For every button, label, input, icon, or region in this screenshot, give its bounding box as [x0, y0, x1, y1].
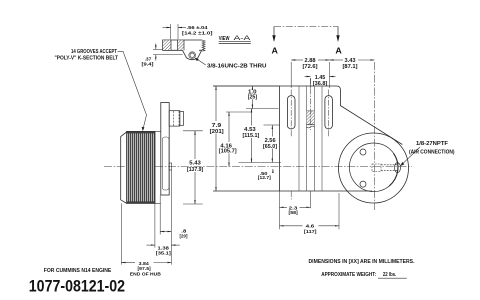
svg-text:[105.7]: [105.7] — [219, 149, 237, 155]
svg-text:3.43: 3.43 — [345, 58, 356, 64]
svg-text:[9.4]: [9.4] — [142, 62, 155, 67]
svg-text:.56 ±.04: .56 ±.04 — [187, 25, 208, 30]
dimension 4.53 — [251, 109, 253, 126]
extension lines left of bracket — [213, 85, 280, 87]
bolt hole top — [360, 149, 366, 155]
dimension 2.56 — [271, 125, 273, 137]
hub centerline — [310, 78, 312, 130]
view A-A serrated right edge — [202, 40, 205, 51]
svg-text:5.43: 5.43 — [189, 160, 201, 166]
bolt hole bottom — [360, 181, 366, 187]
view A-A section bar outline — [163, 40, 202, 50]
svg-text:1077-08121-02: 1077-08121-02 — [29, 277, 125, 295]
svg-text:DIMENSIONS IN [XX] ARE IN MILL: DIMENSIONS IN [XX] ARE IN MILLIMETERS. — [309, 259, 415, 265]
svg-text:[72.6]: [72.6] — [303, 64, 318, 70]
svg-text:[20]: [20] — [180, 234, 188, 239]
svg-text:APPROXIMATE WEIGHT:: APPROXIMATE WEIGHT: — [321, 272, 376, 278]
svg-text:"POLY-V" K-SECTION BELT: "POLY-V" K-SECTION BELT — [55, 56, 119, 62]
view A-A lug below bar — [183, 50, 202, 59]
view A-A hatched rib 2 — [178, 40, 184, 50]
dimension 3.43 — [330, 59, 344, 61]
leader for 14 grooves callout — [118, 51, 147, 129]
view A-A hatched rib 1 — [163, 40, 171, 50]
svg-text:2.88: 2.88 — [305, 58, 316, 64]
dimension 1.0 — [251, 86, 253, 89]
svg-text:[14.2 ±1.0]: [14.2 ±1.0] — [182, 30, 213, 35]
svg-text:[87.1]: [87.1] — [343, 64, 358, 70]
svg-text:FOR CUMMINS N14 ENGINE: FOR CUMMINS N14 ENGINE — [44, 268, 112, 274]
svg-text:A: A — [335, 45, 341, 55]
svg-text:22 lbs.: 22 lbs. — [383, 272, 397, 278]
dimension 5.43 — [183, 130, 203, 132]
svg-text:[36.8]: [36.8] — [313, 81, 328, 87]
dimension 2.88 — [290, 62, 292, 88]
dimension 2.3 — [279, 191, 281, 229]
svg-text:14 GROOVES ACCEPT: 14 GROOVES ACCEPT — [71, 49, 118, 55]
top ear with bolt hole — [169, 111, 180, 126]
dimension 4.16 — [228, 112, 230, 142]
svg-text:1/8-27NPTF: 1/8-27NPTF — [416, 141, 449, 147]
dimension 7.9 — [215, 86, 217, 121]
svg-text:END OF HUB: END OF HUB — [130, 271, 162, 276]
svg-text:[25]: [25] — [248, 95, 258, 101]
svg-text:[137.9]: [137.9] — [187, 167, 203, 173]
svg-text:A: A — [272, 45, 278, 55]
svg-text:4.6: 4.6 — [306, 224, 315, 229]
outer circle of air chamber — [339, 133, 409, 203]
dimension 1.45 — [310, 78, 312, 88]
dimension 3.84 — [120, 203, 122, 264]
dimension 1.38 — [147, 244, 155, 246]
notes bottom right — [309, 259, 415, 278]
dimension .37 — [153, 48, 163, 50]
part number 1077-08121-02 — [29, 277, 125, 295]
view A-A tapped hole circles — [190, 53, 194, 57]
dimension .56 ±.04 — [170, 24, 172, 39]
slot centerlines — [290, 90, 292, 138]
svg-text:3/8-16UNC-2B THRU: 3/8-16UNC-2B THRU — [207, 63, 267, 69]
leader 3/8-16UNC — [195, 58, 206, 65]
title: for cummins n14 engine — [44, 268, 112, 274]
bracket plate side view — [161, 103, 169, 196]
svg-text:[115.1]: [115.1] — [243, 133, 260, 139]
svg-text:[117]: [117] — [304, 229, 317, 234]
main horizontal centerline — [104, 166, 412, 168]
note: 14 grooves callout text — [55, 49, 119, 61]
leader 1/8-27NPTF — [402, 147, 421, 165]
svg-text:[65.0]: [65.0] — [263, 144, 277, 150]
slot 2 — [325, 96, 333, 129]
svg-text:[58]: [58] — [289, 210, 299, 215]
dimension .8 — [154, 203, 156, 247]
dimension 4.6 — [338, 193, 340, 229]
hub stub end of hub — [169, 163, 171, 170]
pulley to plate connector lines — [155, 130, 161, 132]
inner circle — [349, 143, 398, 192]
center air fitting dashed — [372, 164, 381, 172]
cutting plane A-A — [274, 26, 338, 28]
dimension .50 — [272, 169, 274, 173]
svg-text:[12.7]: [12.7] — [258, 175, 271, 180]
bracket internal verticals — [298, 86, 300, 191]
view A-A label — [219, 35, 252, 42]
pulley side view: front face — [121, 132, 127, 203]
plate inner rounded rect — [162, 137, 169, 190]
air port — [395, 163, 401, 173]
svg-text:[97.5]: [97.5] — [138, 266, 152, 271]
vertical centerline of circle — [374, 62, 376, 210]
svg-text:VIEW: VIEW — [219, 36, 231, 42]
hub hole with hatch — [307, 110, 315, 112]
svg-text:[201]: [201] — [210, 129, 224, 135]
slot 1 — [287, 96, 295, 129]
svg-text:[35.1]: [35.1] — [156, 250, 172, 255]
svg-text:(AIR CONNECTION): (AIR CONNECTION) — [409, 149, 455, 155]
bracket front view outline — [213, 86, 402, 145]
pulley side view: groove block — [127, 131, 155, 203]
inner circle thick right arc — [389, 153, 398, 186]
